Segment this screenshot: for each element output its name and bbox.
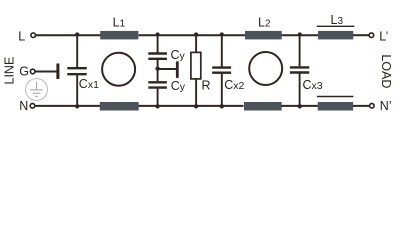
wire winding 3 to N' terminal [353,105,369,107]
wire Cx3 down to node J [299,74,301,106]
wire N terminal to bottom winding 1 [36,105,102,107]
wire node D to L2 [222,34,246,36]
wire R down to node H [195,79,197,106]
wire Cy upper to midpoint [157,60,159,82]
capacitor Cx2 [212,68,244,92]
junction node A (top of Cx1) [75,32,79,36]
wire L2 to node E [282,34,301,36]
wire L3 to L' terminal [353,34,369,36]
protective earth symbol [26,79,48,101]
wire L terminal to node A [36,34,102,36]
wire L1 to node B [139,34,158,36]
terminal N' [370,99,392,113]
svg-text:G: G [19,65,29,79]
svg-text:L2: L2 [258,15,271,29]
svg-text:Cx3: Cx3 [303,78,323,92]
svg-text:Cx1: Cx1 [79,77,99,91]
junction Cy midpoint [155,67,159,71]
capacitor Cy upper [148,48,185,62]
inductor bottom winding 2 [244,102,282,111]
common-mode choke core CM2 [249,52,282,85]
svg-text:N: N [19,99,28,113]
wire node B down to Cy upper [157,35,159,53]
chassis bar at G stub [56,64,59,80]
capacitor Cy lower [148,79,185,93]
wire node B to node C [158,34,197,36]
wire Cx2 down to node I [221,74,223,106]
junction node E (top of Cx3) [298,32,302,36]
inductor L2 [245,15,282,39]
wire winding 2 to winding 3 (bottom rail) [281,105,318,107]
svg-text:Cy: Cy [171,79,186,93]
svg-text:N’: N’ [380,99,392,113]
junction node D (top of Cx2) [220,32,224,36]
inductor bottom winding 1 [100,102,139,111]
terminal L [18,30,35,44]
terminal L' [369,30,388,44]
svg-text:L1: L1 [113,16,126,30]
svg-text:LINE: LINE [2,57,16,85]
wire Cy lower to node G2 [157,89,159,106]
wire Cx1 down to node F [76,75,78,106]
wire Cy midpoint stub [158,68,177,70]
junction node H (bottom of R) [194,104,198,108]
chassis bar at Cy midpoint [176,61,179,78]
wire node A down to Cx1 [76,35,78,67]
wire bottom rail node G2 to winding 2 [139,105,244,107]
terminal G [19,65,35,79]
svg-text:Cx2: Cx2 [224,78,244,92]
inductor bottom winding 3 [317,97,354,111]
svg-text:L3: L3 [331,13,344,27]
capacitor Cx3 [290,67,323,92]
svg-text:Cy: Cy [171,48,186,62]
junction node C (top of R) [194,32,198,36]
svg-text:LOAD: LOAD [379,54,393,88]
resistor R [191,52,211,92]
svg-text:L: L [18,30,25,44]
inductor L1 [100,16,138,40]
svg-text:L’: L’ [379,30,388,44]
junction node J (bottom of Cx3) [298,104,302,108]
junction node I (bottom of Cx2) [220,104,224,108]
svg-text:R: R [202,78,211,92]
capacitor Cx1 [67,68,99,91]
terminal N [19,99,35,113]
inductor L3 [317,13,355,39]
wire node E to L3 [300,34,319,36]
junction node F (bottom of Cx1) [75,104,79,108]
wire node C down to R [195,35,197,53]
wire G terminal stub [35,71,57,73]
wire node C to node D [196,34,222,36]
wire node E down to Cx3 [299,35,301,66]
common-mode choke core CM1 [102,53,135,86]
junction node G2 (bottom of Cy) [155,104,159,108]
junction node B (top of Cy) [155,32,159,36]
wire node D down to Cx2 [221,35,223,67]
